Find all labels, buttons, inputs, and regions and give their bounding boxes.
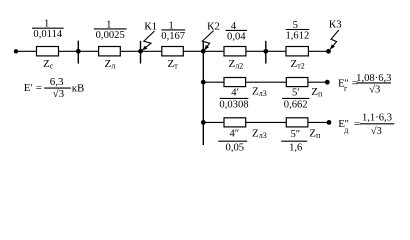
svg-text:4″: 4″ <box>229 129 239 140</box>
fault marker K2 (lightning arrow) <box>202 31 213 51</box>
node K3 (terminal dot) <box>326 49 331 54</box>
svg-text:Zл3: Zл3 <box>252 127 267 140</box>
svg-text:=: = <box>354 118 360 130</box>
node junction 1 (tick + dot) <box>76 41 81 64</box>
wire Zл2 to node 2 <box>246 50 286 52</box>
svg-text:1,1·6,3: 1,1·6,3 <box>362 113 392 124</box>
value 4''/0,05 <box>226 129 245 154</box>
svg-text:Е′: Е′ <box>24 82 33 94</box>
label Zт <box>168 58 179 71</box>
resistor Zл3 (upper branch) <box>224 78 246 87</box>
wire Zп'' to terminal <box>308 121 329 123</box>
resistor Zл <box>99 47 121 56</box>
svg-text:Zс: Zс <box>43 58 54 71</box>
wire bus to Zл3'' <box>203 121 224 123</box>
svg-text:0,0308: 0,0308 <box>219 99 248 110</box>
fault marker K3 (lightning arrow) <box>330 30 339 50</box>
label K3 <box>329 19 342 31</box>
svg-text:К1: К1 <box>144 21 157 33</box>
svg-text:К2: К2 <box>207 20 220 32</box>
wire Zп' to terminal <box>308 81 327 83</box>
svg-text:д: д <box>344 126 348 135</box>
svg-text:√3: √3 <box>371 125 382 137</box>
resistor Zт <box>162 47 184 56</box>
svg-text:0,0025: 0,0025 <box>96 30 125 41</box>
wire Zл3'' to Zп'' <box>246 121 287 123</box>
label K2 <box>207 20 220 32</box>
label Zл <box>105 58 116 71</box>
wire Zc to node1 <box>59 50 99 52</box>
svg-text:0,0114: 0,0114 <box>33 29 62 40</box>
svg-text:Zт2: Zт2 <box>291 58 305 71</box>
svg-text:1,612: 1,612 <box>285 31 309 42</box>
svg-text:√3: √3 <box>369 84 380 96</box>
value 5''/1,6 <box>289 129 302 154</box>
formula E' = 6,3/sqrt3 кВ <box>24 76 85 100</box>
value 4/0,04 <box>227 21 246 43</box>
value 1/0,167 <box>161 20 185 42</box>
resistor Zc <box>37 47 59 56</box>
svg-text:Zп: Zп <box>309 128 321 141</box>
svg-text:5′: 5′ <box>292 87 300 98</box>
svg-text:1,08·6,3: 1,08·6,3 <box>356 73 391 84</box>
value 1/0,0114 <box>33 19 62 41</box>
svg-text:Zл2: Zл2 <box>229 58 244 71</box>
value 1/0,0025 <box>96 19 125 41</box>
svg-text:4′: 4′ <box>231 87 239 98</box>
wire Zт to node K2 <box>183 50 224 52</box>
svg-text:0,662: 0,662 <box>284 99 308 110</box>
wire Zт2 to node K3 <box>308 50 328 52</box>
node junction on bus (lower branch) <box>201 120 206 125</box>
svg-text:К3: К3 <box>329 19 342 31</box>
label Zл3 (lower branch) <box>252 127 267 140</box>
node: generator terminal dot <box>325 80 330 85</box>
label K1 <box>144 21 157 33</box>
svg-text:0,04: 0,04 <box>227 31 246 42</box>
label Zл3 (upper branch) <box>252 86 267 99</box>
svg-text:√3: √3 <box>53 88 65 100</box>
svg-text:0,05: 0,05 <box>226 142 245 153</box>
formula E''г = 1,08·6,3/sqrt3 <box>338 73 391 96</box>
label Zт2 <box>291 58 305 71</box>
wire vertical bus from K2 down <box>202 51 204 145</box>
resistor Zл2 <box>224 47 246 56</box>
node: source terminal dot <box>14 49 18 53</box>
value 4'/0,0308 <box>219 87 248 110</box>
svg-text:5″: 5″ <box>290 129 300 140</box>
svg-text:6,3: 6,3 <box>50 76 64 88</box>
resistor Zп (upper branch) <box>286 78 308 87</box>
formula E''д = 1,1·6,3/sqrt3 <box>338 113 392 137</box>
svg-text:Zл: Zл <box>105 58 116 71</box>
svg-text:=: = <box>36 82 42 94</box>
node junction on bus (upper branch) <box>201 80 206 85</box>
wire source to Zc <box>16 50 37 52</box>
node: motor terminal dot <box>327 120 332 125</box>
node junction 2 (tick + dot) <box>263 41 268 64</box>
wire Zл3' to Zп' <box>246 81 287 83</box>
svg-text:0,167: 0,167 <box>161 31 185 42</box>
node K1 (tick + dot) <box>138 41 143 64</box>
resistor Zл3 (lower branch) <box>224 118 246 127</box>
wire bus to Zл3' <box>203 81 224 83</box>
fault marker K1 (lightning arrow) <box>142 31 155 50</box>
svg-text:Zт: Zт <box>168 58 179 71</box>
value 5'/0,662 <box>284 87 308 110</box>
resistor Zп (lower branch) <box>286 118 308 127</box>
label Zc <box>43 58 54 71</box>
label Zп (upper branch) <box>311 86 323 99</box>
svg-text:1,6: 1,6 <box>289 143 302 154</box>
svg-text:Zл3: Zл3 <box>252 86 267 99</box>
svg-text:кВ: кВ <box>72 82 85 94</box>
node K2 (tick + dot) <box>201 42 206 54</box>
resistor Zт2 <box>286 47 308 56</box>
label Zл2 <box>229 58 244 71</box>
wire Zл to node K1 <box>120 50 162 52</box>
svg-text:Zп: Zп <box>311 86 323 99</box>
value 5/1,612 <box>285 20 309 42</box>
label Zп (lower branch) <box>309 128 321 141</box>
